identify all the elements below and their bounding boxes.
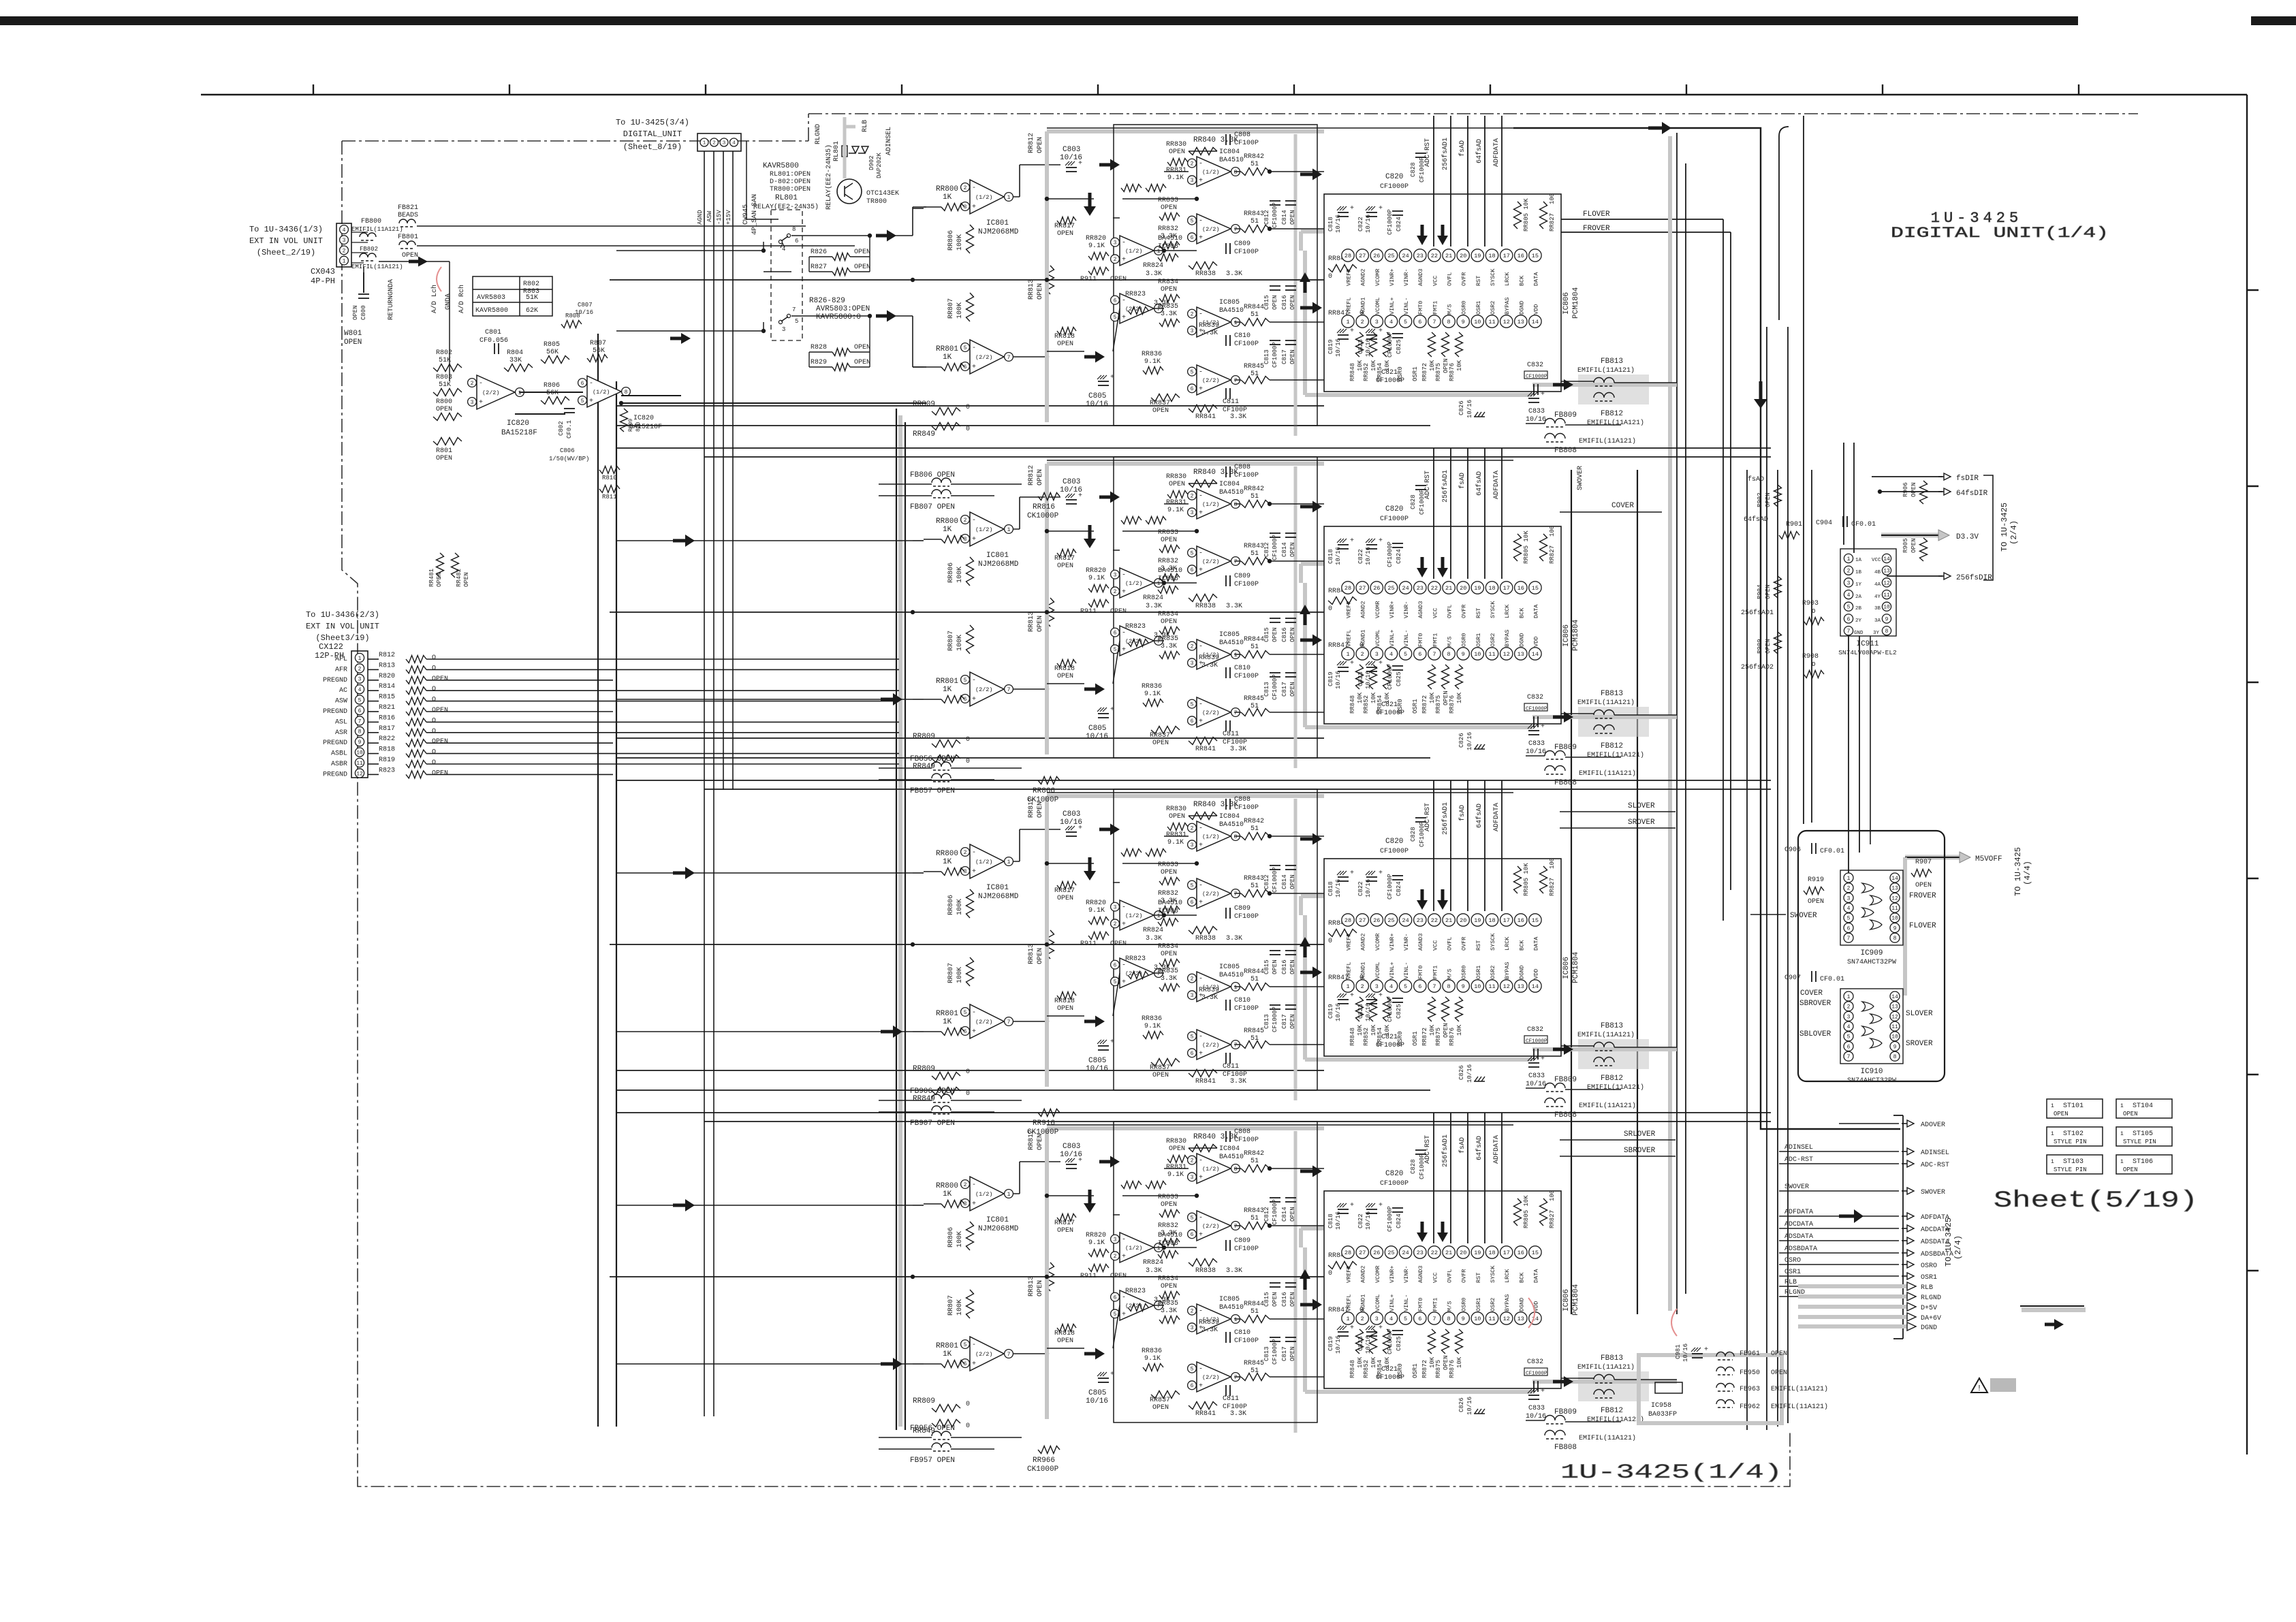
dash-dot border top [342,114,2138,141]
svg-text:O: O [432,749,436,757]
svg-text:12: 12 [1891,895,1898,902]
svg-text:2: 2 [1847,1004,1851,1011]
svg-text:3A: 3A [1874,618,1881,624]
svg-text:(2/4): (2/4) [2009,520,2019,545]
channel block 1 (IC801 IC803-IC805 IC806) [610,116,1677,455]
resistor RR816 CK1000P [1038,493,1060,500]
wire IC911 to IC909 [1848,636,1849,873]
svg-text:A/D Rch: A/D Rch [458,285,466,313]
svg-text:4Y: 4Y [1874,594,1881,600]
svg-text:9: 9 [358,740,362,746]
svg-text:2: 2 [1847,886,1851,892]
svg-text:BEADS: BEADS [398,212,418,219]
svg-text:4: 4 [358,687,362,693]
svg-text:SBROVER: SBROVER [1799,1000,1831,1008]
svg-text:Sheet(5/19): Sheet(5/19) [1994,1188,2198,1214]
svg-text:OSR1: OSR1 [1921,1274,1937,1282]
svg-text:3: 3 [471,400,474,406]
channel block 2 (IC851 IC853-IC855 IC856) [610,448,1677,787]
svg-text:OPEN: OPEN [1910,482,1917,497]
svg-text:CF0.1: CF0.1 [566,420,573,439]
jumper ST104 OPEN [2116,1099,2172,1118]
svg-text:SBLOVER: SBLOVER [1799,1030,1831,1038]
svg-text:SN74AHCT32PW: SN74AHCT32PW [1847,959,1896,966]
resistor RR916 CK1000P [1038,1109,1060,1117]
svg-text:7: 7 [1847,1054,1851,1060]
capacitor C800 OPEN [363,272,364,293]
svg-text:+: + [479,399,483,407]
svg-text:3: 3 [1847,895,1851,902]
signal list bracket [1902,1115,1904,1339]
ferrite bead FB963 EMIFIL [1716,1384,1734,1388]
svg-text:OPEN: OPEN [1771,1369,1787,1377]
svg-text:EMIFIL(11A121): EMIFIL(11A121) [1771,1385,1828,1393]
svg-text:ADCDATA: ADCDATA [1784,1221,1813,1228]
right ruler ticks [2247,289,2259,291]
svg-text:OPEN: OPEN [2054,1111,2069,1117]
svg-text:R813: R813 [379,662,395,669]
svg-text:TO 1U-3425: TO 1U-3425 [2013,847,2023,896]
svg-text:RL801: RL801 [833,141,840,161]
svg-text:SWOVER: SWOVER [1577,466,1584,490]
svg-text:ADINSEL: ADINSEL [885,127,893,155]
svg-text:C801: C801 [485,329,501,336]
connector CW945 4P_SAN-SAN [697,133,741,151]
svg-text:4B: 4B [1874,570,1881,575]
svg-text:1B: 1B [1855,570,1862,575]
svg-text:R818: R818 [379,746,395,754]
svg-text:OPEN: OPEN [1765,492,1772,507]
svg-text:10: 10 [356,750,363,756]
svg-text:R823: R823 [379,767,395,774]
svg-text:R805: R805 [544,341,560,349]
svg-text:R821: R821 [379,704,395,712]
wire ferrite FB956 [879,1437,932,1438]
svg-text:ADC-RST: ADC-RST [1784,1156,1813,1164]
svg-text:STYLE PIN: STYLE PIN [2123,1139,2156,1145]
svg-text:O: O [432,717,436,725]
svg-text:+: + [589,398,593,405]
svg-text:FB907 OPEN: FB907 OPEN [910,1119,955,1128]
svg-text:(1/2): (1/2) [593,389,610,396]
svg-text:OSRO: OSRO [1921,1262,1937,1270]
svg-text:1: 1 [2120,1159,2124,1165]
svg-text:6: 6 [581,381,584,387]
svg-text:(2/2): (2/2) [482,389,500,396]
capacitor C802 CF0.1 [564,408,575,409]
svg-text:CK1000P: CK1000P [1027,1128,1059,1136]
wire vertical bus group right [1676,133,1678,1314]
svg-text:fsAD: fsAD [1748,475,1764,483]
svg-text:1: 1 [1847,994,1851,1000]
svg-text:FB807 OPEN: FB807 OPEN [910,503,955,511]
svg-text:7: 7 [1847,629,1851,635]
svg-text:8: 8 [1893,936,1897,942]
wire CW945 down [704,151,705,1416]
svg-text:TO 1U-3425: TO 1U-3425 [1944,1218,1953,1267]
svg-text:FB800: FB800 [361,218,381,225]
svg-text:7: 7 [1847,936,1851,942]
svg-text:FLOVER: FLOVER [1909,922,1936,930]
svg-text:FB950: FB950 [1740,1369,1760,1377]
wire left vertical bus [597,334,599,1427]
svg-text:COVER: COVER [1611,502,1634,510]
channel block 4 (IC951 IC953-IC955 IC956) [610,1113,1677,1452]
wire ferrite FB856 [879,767,932,769]
svg-text:R814: R814 [379,683,395,690]
svg-text:ASW: ASW [335,698,347,705]
svg-text:OPEN: OPEN [854,344,870,351]
svg-text:1: 1 [518,390,522,396]
svg-text:SLOVER: SLOVER [1628,802,1655,810]
wire vertical bus gray [1668,136,1672,1311]
svg-text:OPEN: OPEN [463,572,470,587]
svg-text:256fsAD2: 256fsAD2 [1741,663,1774,671]
svg-text:8: 8 [1893,1054,1897,1060]
svg-text:ST106: ST106 [2133,1158,2153,1166]
svg-text:O: O [1812,661,1815,668]
svg-text:51K: 51K [526,294,538,302]
svg-text:7: 7 [792,306,796,313]
svg-text:3: 3 [358,677,362,683]
svg-text:1: 1 [2051,1159,2054,1165]
svg-text:OPEN: OPEN [2123,1111,2138,1117]
wire IC820 outputs [519,392,583,393]
wire row input feeds [616,540,913,541]
svg-text:8: 8 [1885,629,1889,635]
svg-text:RELAY(EE2-24N35): RELAY(EE2-24N35) [753,203,819,211]
svg-text:SWOVER: SWOVER [1784,1183,1809,1191]
relay coil RL801 [842,146,847,157]
wire IC820 to blocks [621,402,926,404]
svg-text:BA033FP: BA033FP [1648,1411,1677,1418]
svg-text:PREGND: PREGND [323,740,347,747]
svg-text:1Y: 1Y [1855,582,1862,588]
svg-text:OPEN: OPEN [432,769,448,777]
svg-text:RLB: RLB [862,120,869,132]
svg-text:COVER: COVER [1800,989,1823,998]
svg-text:R810: R810 [602,475,617,481]
IC958 BA033FP block [1639,1355,1782,1423]
svg-text:SWOVER: SWOVER [1790,912,1817,920]
svg-text:R827: R827 [811,264,827,271]
svg-text:5: 5 [1847,605,1851,611]
svg-text:BA15218F: BA15218F [501,429,537,437]
svg-text:SROVER: SROVER [1906,1040,1933,1048]
svg-text:STYLE PIN: STYLE PIN [2054,1139,2087,1145]
svg-text:4: 4 [782,246,785,253]
svg-text:8: 8 [625,389,628,396]
ferrite bead FB962 EMIFIL [1716,1400,1734,1405]
wire left vertical gray [898,415,902,1427]
svg-text:12: 12 [1883,580,1890,586]
svg-text:3: 3 [723,141,726,146]
svg-text:RR866: RR866 [1033,787,1055,795]
svg-text:EXT IN VOL UNIT: EXT IN VOL UNIT [249,236,323,246]
ferrite bead FB957 OPEN [932,1443,951,1448]
svg-text:256fsAD1: 256fsAD1 [1741,609,1774,617]
signal D+5V [1839,1306,1899,1307]
svg-text:DIGITAL_UNIT: DIGITAL_UNIT [623,129,682,139]
svg-text:13: 13 [1891,886,1898,892]
top black bar right segment [2251,16,2296,25]
svg-text:64fsDIR: 64fsDIR [1956,490,1988,498]
svg-text:AGND: AGND [697,210,704,225]
svg-text:RLB: RLB [1784,1279,1797,1286]
svg-text:OPEN: OPEN [432,738,448,746]
svg-text:IC910: IC910 [1860,1068,1883,1076]
svg-text:256fsDIR: 256fsDIR [1956,574,1992,582]
svg-text:O: O [432,728,436,735]
svg-text:11: 11 [1891,1024,1898,1030]
svg-text:TR800: TR800 [866,198,887,206]
svg-text:RLGND: RLGND [1921,1294,1941,1302]
svg-text:AC: AC [339,687,347,695]
big rounded routing box around IC909 IC910 [1798,831,1945,1081]
warning gray box [1990,1378,2016,1392]
svg-text:1: 1 [1847,556,1851,562]
svg-text:1: 1 [2051,1103,2054,1109]
svg-text:14: 14 [1891,876,1898,882]
svg-text:12: 12 [1891,1014,1898,1020]
svg-text:R904: R904 [1757,584,1763,599]
svg-text:CF0.056: CF0.056 [479,337,508,345]
svg-text:13: 13 [1883,569,1890,575]
table R802 R803 values [473,276,552,316]
svg-text:RLB: RLB [1921,1284,1933,1292]
svg-text:OPEN: OPEN [402,252,418,259]
svg-text:R829: R829 [811,359,827,366]
wire loop FLOVER FROVER [1561,219,1723,220]
svg-text:R819: R819 [379,757,395,764]
svg-text:3: 3 [782,326,785,333]
svg-text:2Y: 2Y [1855,618,1862,624]
svg-text:(Sheet3/19): (Sheet3/19) [315,633,369,643]
resistor RR966 CK1000P [1038,1446,1060,1454]
svg-text:C806: C806 [560,447,575,454]
svg-text:R802: R802 [523,281,539,288]
svg-text:10: 10 [1891,1034,1898,1040]
svg-text:!: ! [1977,1384,1981,1393]
arrow ADFDATA bold [1839,1209,1863,1223]
svg-text:OSR1: OSR1 [1784,1269,1801,1276]
svg-text:O: O [1812,608,1815,615]
svg-text:OPEN: OPEN [854,264,870,271]
svg-text:-: - [589,380,593,387]
svg-text:ADFDATA: ADFDATA [1784,1209,1813,1216]
svg-text:RETURNGNDA: RETURNGNDA [388,279,395,320]
svg-text:4: 4 [1847,592,1851,599]
svg-text:SBROVER: SBROVER [1624,1147,1656,1155]
svg-text:FB821: FB821 [398,204,418,212]
svg-text:PREGND: PREGND [323,771,347,778]
svg-text:11: 11 [1891,906,1898,912]
svg-text:OPEN: OPEN [2123,1166,2138,1173]
svg-text:DIGITAL UNIT(1/4): DIGITAL UNIT(1/4) [1891,225,2109,242]
wire CX043 to right [417,225,806,227]
svg-text:2: 2 [712,141,716,146]
svg-text:10: 10 [1891,916,1898,922]
svg-text:O: O [432,654,436,662]
svg-text:ADINSEL: ADINSEL [1784,1144,1813,1151]
svg-text:FB962: FB962 [1740,1403,1760,1411]
warning triangle [1971,1378,1987,1393]
bracket TO 1U-3425(2/4) upper [1983,475,1993,580]
svg-text:OPEN: OPEN [436,455,452,462]
svg-text:OSRO: OSRO [1784,1257,1801,1265]
svg-text:VCC: VCC [1872,558,1881,563]
svg-text:R815: R815 [379,694,395,701]
svg-text:CX043: CX043 [311,267,335,276]
svg-text:11: 11 [1883,592,1890,599]
svg-text:6: 6 [795,238,798,244]
svg-text:fsDIR: fsDIR [1956,475,1979,483]
svg-text:RL801: RL801 [775,194,798,202]
svg-text:KAVR5800:0: KAVR5800:0 [816,313,861,321]
svg-text:RL801:OPEN: RL801:OPEN [770,171,811,178]
svg-text:O: O [432,686,436,693]
legend arrow [2045,1319,2064,1330]
svg-text:C802: C802 [558,421,565,436]
connector CX043 4P-PH [336,223,351,267]
svg-text:3: 3 [1847,580,1851,586]
svg-text:R906: R906 [1902,482,1909,497]
svg-text:1/50(WV/BP): 1/50(WV/BP) [549,456,589,462]
svg-text:ST105: ST105 [2133,1130,2153,1138]
marking red arc 3 [1528,1298,1535,1328]
svg-text:ASBL: ASBL [331,750,347,758]
svg-text:C800: C800 [360,305,367,320]
diode D802 DAP202K [849,146,859,153]
svg-text:DGND: DGND [1921,1324,1937,1332]
svg-text:BA15218F: BA15218F [629,424,662,431]
svg-text:TO 1U-3425: TO 1U-3425 [2000,503,2009,552]
svg-text:R812: R812 [379,652,395,659]
IC910 SN74AHCT32PW [1840,989,1903,1064]
svg-text:To 1U-3425(3/4): To 1U-3425(3/4) [616,118,689,127]
svg-text:-: - [479,380,483,387]
svg-text:ADSDATA: ADSDATA [1784,1233,1813,1241]
svg-text:1: 1 [2120,1103,2124,1109]
svg-text:R822: R822 [379,735,395,743]
svg-text:(Sheet_2/19): (Sheet_2/19) [257,248,315,257]
jumper ST105 STYLE PIN [2116,1127,2172,1146]
svg-text:1: 1 [2120,1131,2124,1137]
svg-text:5: 5 [1847,1034,1851,1040]
svg-text:OPEN: OPEN [1910,538,1917,553]
svg-text:CF0.01: CF0.01 [1820,848,1844,855]
svg-text:GNDA: GNDA [445,293,452,310]
svg-text:8: 8 [358,729,362,735]
wire rounded corner trunk top [1779,127,1789,320]
transistor TR800 DTC143EK [837,179,862,204]
svg-text:OPEN: OPEN [436,406,452,413]
svg-text:R817: R817 [379,725,395,733]
marking red arc 1 [437,267,441,291]
svg-text:RR966: RR966 [1033,1457,1055,1465]
svg-text:1: 1 [1847,876,1851,882]
wire fsDIR outputs [1872,476,1943,477]
svg-text:FLOVER: FLOVER [1583,210,1610,219]
svg-text:RR916: RR916 [1033,1119,1055,1128]
svg-text:11: 11 [356,761,363,767]
connector CX122 12P-PH [351,651,368,778]
svg-text:D+5V: D+5V [1921,1305,1937,1312]
svg-text:R919: R919 [1808,876,1824,884]
svg-text:33K: 33K [509,357,522,364]
svg-text:+: + [1704,1346,1708,1354]
svg-text:OPEN: OPEN [344,338,362,347]
svg-text:3: 3 [1847,1014,1851,1020]
svg-text:4P-PH: 4P-PH [311,276,335,286]
svg-text:IC909: IC909 [1860,949,1883,957]
svg-text:OPEN: OPEN [854,249,870,256]
svg-text:5: 5 [795,318,798,325]
svg-text:OPEN: OPEN [1771,1350,1787,1358]
svg-text:R801: R801 [436,447,452,455]
svg-text:IC820: IC820 [633,415,654,422]
svg-text:9: 9 [1893,1044,1897,1050]
svg-text:64fsAD: 64fsAD [1744,515,1768,524]
svg-text:R807: R807 [590,340,606,347]
svg-text:62K: 62K [526,307,538,315]
relay switch 1 [787,234,790,237]
dash-dot border left and bottom [342,141,1790,1486]
resistor RR866 CK1000P [1038,777,1060,784]
svg-text:EMIFIL(11A121): EMIFIL(11A121) [1771,1403,1828,1411]
svg-text:ADINSEL: ADINSEL [1921,1149,1949,1157]
svg-text:R811: R811 [602,494,617,500]
svg-text:CF0.01: CF0.01 [1851,521,1876,528]
svg-text:ASL: ASL [335,718,347,726]
resistor RR482 OPEN [452,553,459,577]
svg-text:D-802:OPEN: D-802:OPEN [770,178,811,186]
svg-text:STYLE PIN: STYLE PIN [2054,1166,2087,1173]
svg-text:O: O [432,697,436,704]
svg-text:56K: 56K [546,389,559,397]
svg-text:RR816: RR816 [1033,503,1055,511]
svg-text:2: 2 [1847,569,1851,575]
svg-text:5: 5 [358,697,362,703]
svg-text:(Sheet_8/19): (Sheet_8/19) [623,142,682,152]
svg-text:O: O [432,665,436,672]
relay switch 2 [787,314,790,317]
resistor R801 OPEN [433,438,462,445]
svg-text:ST102: ST102 [2063,1130,2083,1138]
svg-text:ADC-RST: ADC-RST [1921,1162,1949,1169]
svg-text:4: 4 [343,227,346,234]
svg-text:KAVR5800: KAVR5800 [763,162,799,170]
signal ADOVER [1839,1123,1899,1124]
svg-text:To 1U-3436(1/3): To 1U-3436(1/3) [249,225,323,234]
ferrite bead FB857 OPEN [932,774,951,778]
svg-text:CK1000P: CK1000P [1027,512,1059,520]
svg-text:FB957 OPEN: FB957 OPEN [910,1457,955,1465]
svg-text:CF0.01: CF0.01 [1820,976,1844,983]
wire big loop row1 ADFDATA [1513,128,1900,1129]
svg-text:2: 2 [471,381,474,387]
svg-text:OPEN: OPEN [432,675,448,683]
svg-text:ST104: ST104 [2133,1102,2153,1110]
svg-text:3Y: 3Y [1873,631,1880,636]
svg-text:To 1U-3436(2/3): To 1U-3436(2/3) [306,610,379,620]
svg-text:FB802: FB802 [360,246,378,253]
svg-text:R803: R803 [436,374,452,381]
svg-text:D3.3V: D3.3V [1956,533,1979,541]
op-amp IC820 (1/2) [587,376,621,407]
svg-text:R909: R909 [1757,639,1763,654]
arrow relay out 1 [876,230,896,242]
